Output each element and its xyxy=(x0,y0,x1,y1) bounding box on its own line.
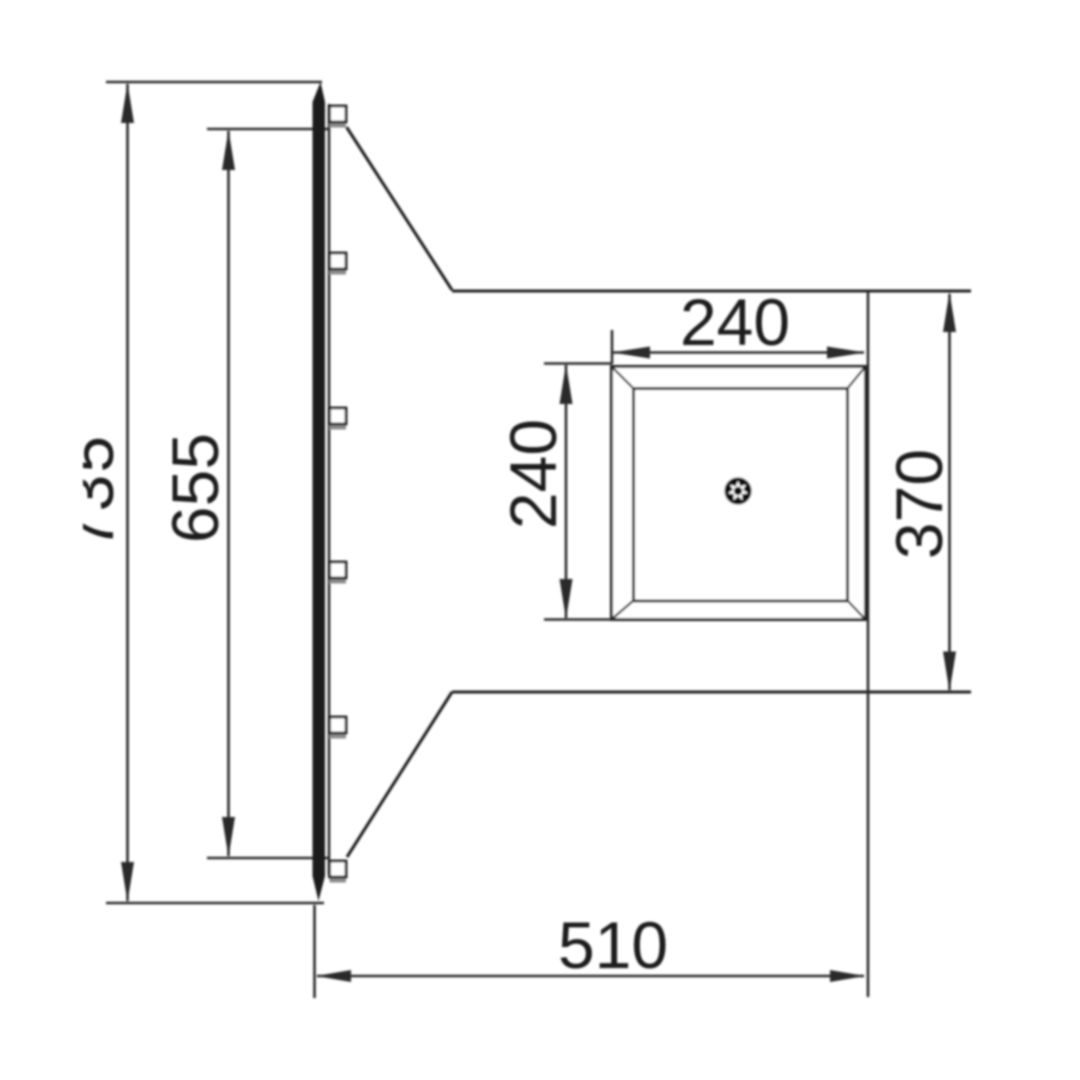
dimension 240 vertical: dimension line xyxy=(565,365,568,618)
clip tab 5 shadow xyxy=(330,733,347,739)
dimension 240 horizontal: left extension line xyxy=(611,330,614,364)
dimension 240 vertical: bottom extension line xyxy=(544,618,614,621)
dimension 735: dimension line xyxy=(126,84,129,901)
body outline: lower diagonal xyxy=(347,692,452,857)
svg-text:240: 240 xyxy=(680,285,790,359)
dimension 735: top extension line xyxy=(106,81,322,84)
dimension 240 vertical: top arrowhead xyxy=(560,364,573,404)
clip tab 2 shadow xyxy=(330,269,347,275)
dimension 240 horizontal: left arrowhead xyxy=(612,347,650,359)
bowl inner square xyxy=(634,389,848,602)
dimension 735: value label (clipped) xyxy=(53,434,127,550)
svg-text:510: 510 xyxy=(558,908,668,982)
dimension 735: top arrowhead xyxy=(121,83,134,123)
bowl chamfer bottom-right xyxy=(847,600,865,619)
bowl chamfer top-right xyxy=(847,367,865,389)
svg-text:370: 370 xyxy=(882,449,956,559)
dimension 735: bottom arrowhead xyxy=(121,862,134,902)
bowl chamfer bottom-left xyxy=(612,600,634,619)
dimension 735: bottom extension line xyxy=(106,902,324,905)
bowl chamfer top-left xyxy=(612,367,634,389)
dimension 370: dimension line xyxy=(948,294,951,690)
plate front face line xyxy=(328,104,331,875)
clip tab 2 xyxy=(330,253,347,269)
dimension 240 vertical: top extension line xyxy=(544,362,612,365)
dimension 370: bottom arrowhead xyxy=(943,652,956,692)
drain strainer xyxy=(724,477,751,504)
clip tab 4 xyxy=(330,562,347,578)
dimension 655: bottom extension line xyxy=(207,857,330,860)
svg-text:655: 655 xyxy=(158,433,232,543)
body outline: upper diagonal xyxy=(347,127,453,290)
svg-text:240: 240 xyxy=(496,419,570,529)
dimension 655: dimension line xyxy=(227,131,230,856)
dimension 510: dimension line xyxy=(317,975,864,978)
clip tab 3 xyxy=(330,408,347,424)
dimension 240 horizontal: right arrowhead xyxy=(827,347,865,359)
dimension 240 horizontal: dimension line xyxy=(613,351,864,354)
dimension 655: top arrowhead xyxy=(222,130,235,170)
dimension 370: top arrowhead xyxy=(943,292,956,332)
clip tab 4 shadow xyxy=(330,578,347,584)
body outline: top horizontal edge xyxy=(452,289,971,292)
dimension 510: left extension line xyxy=(313,905,316,998)
dimension 510: right extension line (long) xyxy=(867,291,870,997)
dimension 240 vertical: bottom arrowhead xyxy=(560,579,573,619)
clip tab 5 xyxy=(330,717,347,733)
clip tab 1 shadow xyxy=(330,122,347,128)
dimension 510: right arrowhead xyxy=(830,970,865,982)
dimension 510: left arrowhead xyxy=(316,970,351,982)
clip tab 6 shadow xyxy=(330,877,347,883)
body outline: bottom horizontal edge xyxy=(452,690,971,693)
dimension 655: bottom arrowhead xyxy=(222,817,235,857)
dimension 655: top extension line xyxy=(207,128,329,131)
clip tab 3 shadow xyxy=(330,424,347,430)
bowl outer square xyxy=(612,367,866,620)
clip tab 1 xyxy=(330,106,347,122)
mounting plate (black bar, side view) xyxy=(313,82,326,901)
clip tab 6 xyxy=(330,861,347,877)
